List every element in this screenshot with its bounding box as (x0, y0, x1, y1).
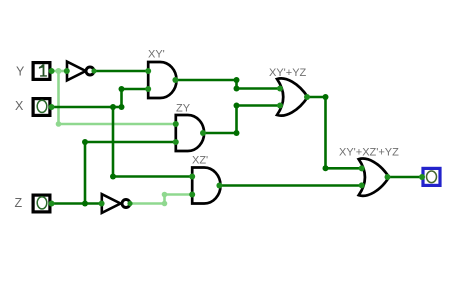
junction node XY' upper corner (234, 77, 240, 83)
wire XY' to OR1 top input (net XY', value 0) (237, 87, 281, 90)
port dot OR2 input B (359, 182, 365, 188)
junction node X top corner (119, 86, 125, 92)
port dot OR1 output (304, 94, 310, 100)
wire Y branch vertical (net Y, value 1) (57, 71, 60, 124)
input pin Y (33, 63, 50, 80)
and gate ZY (U2) (176, 115, 204, 151)
junction node Z corner (82, 139, 88, 145)
port dot XY' input A (145, 68, 151, 74)
port dot XZ' output (216, 183, 222, 189)
port dot ZY output (200, 130, 206, 136)
junction node ZY lower corner (234, 130, 240, 136)
wire X drop vertical (net X, value 0) (112, 107, 115, 177)
wire XY' output horizontal (net XY', value 0) (175, 79, 236, 82)
port dot NOT1 input (64, 68, 70, 74)
wire Z branch to ZY bottom input (net Z, value 0) (85, 141, 176, 144)
svg-text:Z: Z (15, 196, 23, 210)
wire NOT1 output to XY' top input (net Y', value 0) (96, 70, 149, 73)
port dot XZ' input B (189, 192, 195, 198)
wire X to XY' bottom input (net X, value 0) (122, 88, 149, 91)
svg-text:X: X (15, 99, 24, 113)
port dot ZY input A (173, 121, 179, 127)
or gate OR2 (XY'+XZ'+YZ) (359, 159, 389, 196)
wire X rise vertical (net X, value 0) (120, 89, 123, 107)
wire ZY output horizontal (net ZY, value 0) (203, 132, 237, 135)
junction node X bottom corner (110, 174, 116, 180)
junction node Y corner (56, 121, 62, 127)
junction node Y T-branch (56, 68, 62, 74)
port dot NOT2 output (127, 201, 132, 206)
and gate XZ' (U3) (192, 168, 220, 204)
inverter NOT2 (Z') (102, 194, 130, 213)
input pin X (33, 99, 50, 116)
junction node OR2 input corner (323, 165, 329, 171)
output pin O (423, 168, 440, 185)
junction node X T-branch (110, 104, 116, 110)
inverter NOT1 (Y') (67, 62, 94, 81)
junction node Z' upper corner (162, 192, 168, 198)
wire OR1 output horizontal (net XY'+YZ, value 0) (307, 96, 325, 99)
junction node OR1 output corner (323, 94, 329, 100)
port dot output pin O (419, 174, 425, 180)
junction node X rise corner (119, 104, 125, 110)
or gate OR1 (XY'+YZ) (277, 78, 308, 115)
svg-text:XY': XY' (148, 49, 165, 61)
wire NOT2 output to step (net Z', value 1) (131, 202, 165, 205)
junction node ZY upper corner (234, 103, 240, 109)
wire Y branch horizontal to ZY top input (net Y, value 1) (59, 123, 176, 126)
port dot Y pin output (49, 68, 55, 74)
junction node XY' lower corner (234, 86, 240, 92)
port dot XZ' input A (189, 174, 195, 180)
wire OR2 output to pin O (net XY'+XZ'+YZ, value 0) (388, 176, 422, 179)
port dot NOT2 input (99, 201, 105, 207)
port dot XY' input B (145, 86, 151, 92)
svg-text:XY'+XZ'+YZ: XY'+XZ'+YZ (339, 147, 399, 159)
wire X pin horizontal (net X, value 0) (52, 106, 122, 109)
wire ZY rise vertical (net ZY, value 0) (235, 106, 238, 134)
wire Y pin to NOT1 input (net Y, value 1) (52, 70, 67, 73)
port dot Z pin output (49, 201, 55, 207)
svg-text:ZY: ZY (176, 103, 191, 115)
junction node Z T-branch (82, 201, 88, 207)
wire Z' step vertical (net Z', value 1) (163, 195, 166, 204)
port dot ZY input B (173, 139, 179, 145)
junction node Z' lower corner (162, 201, 168, 207)
input pin Z (33, 195, 50, 212)
wire X to XZ' top input (net X, value 0) (113, 175, 192, 178)
wire OR1 drop vertical (net XY'+YZ, value 0) (324, 97, 327, 168)
wire ZY to OR1 bottom input (net ZY, value 0) (237, 104, 281, 107)
port dot OR1 input B (277, 103, 283, 109)
wire Z branch vertical (net Z, value 0) (84, 142, 87, 204)
wire Z pin to NOT2 input (net Z, value 0) (52, 202, 102, 205)
port dot X pin output (49, 104, 55, 110)
wire XY' step down (net XY', value 0) (235, 80, 238, 89)
port dot OR2 input A (359, 165, 365, 171)
and gate XY' (U1) (148, 62, 176, 98)
svg-text:XY'+YZ: XY'+YZ (269, 67, 307, 79)
wire Z' step horizontal to XZ' bottom input (net Z', value 1) (165, 193, 193, 196)
port dot OR1 input A (277, 86, 283, 92)
wire to OR2 top input (net XY'+YZ, value 0) (326, 167, 363, 170)
svg-text:Y: Y (16, 65, 25, 79)
port dot XY' output (172, 77, 178, 83)
wire XZ' output to OR2 bottom input (net XZ', value 0) (219, 184, 362, 187)
svg-text:XZ': XZ' (192, 155, 208, 167)
port dot NOT1 output (91, 68, 96, 73)
port dot OR2 output (385, 174, 391, 180)
